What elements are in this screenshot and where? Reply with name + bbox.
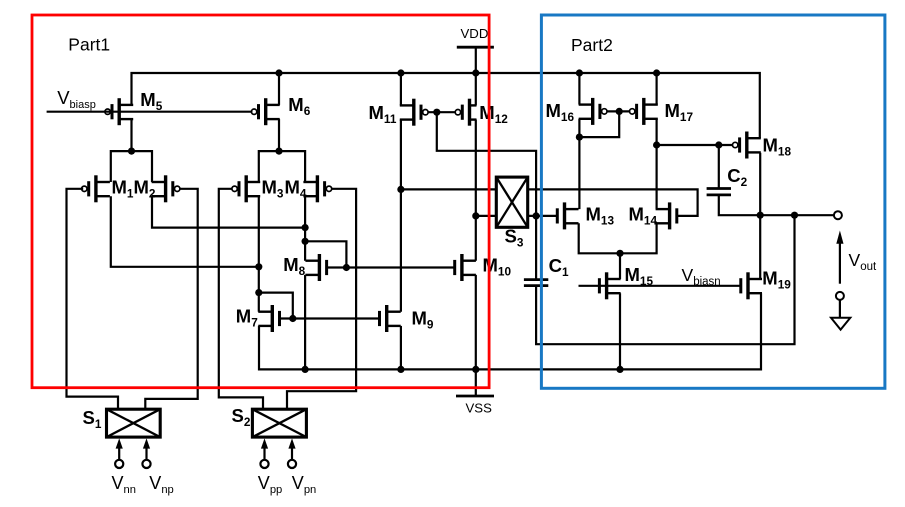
wire C1 top stem (535, 216, 537, 280)
svg-text:Vpp: Vpp (258, 473, 282, 496)
svg-text:S2: S2 (232, 405, 251, 429)
wire M8 source stem (304, 275, 306, 370)
node M16 M17 gates (616, 108, 623, 115)
node M17 drain on rail (653, 69, 660, 76)
wire bottom VSS rail with M7 and M19 sources (259, 293, 761, 369)
node C2 tap on M18 gate line (715, 141, 722, 148)
node M15 source on rail (616, 366, 623, 373)
wire M10 source stem (475, 275, 477, 370)
wire M12 drain stem (475, 73, 477, 105)
transistor M5 (117, 98, 120, 125)
wire Vbiasp gate line to M5 M6 (47, 111, 253, 113)
node M7 gate junction (289, 315, 296, 322)
wire M11 drain stem (400, 73, 402, 105)
wire M18 source column to M19 drain (759, 153, 761, 279)
wire M3 gate to S2 left (219, 189, 263, 409)
ground symbol (839, 300, 841, 318)
node A M1 M7 drains (255, 263, 262, 270)
transistor M2 (164, 175, 167, 202)
svg-text:M1: M1 (112, 177, 134, 201)
switch S1 (107, 409, 161, 437)
svg-text:M7: M7 (236, 306, 258, 330)
node M17 source M18 gate (653, 141, 660, 148)
wire M6 drain stem (278, 73, 280, 105)
svg-text:M17: M17 (665, 100, 694, 124)
transistor M15 (605, 272, 608, 299)
svg-text:M6: M6 (288, 94, 310, 118)
terminal Vout reference (836, 292, 844, 300)
svg-text:M19: M19 (762, 267, 791, 291)
Part1 boundary box (32, 15, 489, 388)
svg-text:Vnn: Vnn (112, 473, 136, 496)
transistor M19 (746, 272, 749, 299)
node M16 source M13 drain (576, 134, 583, 141)
wire output node to terminal (760, 214, 834, 216)
wire M13 M14 source yoke (579, 223, 657, 253)
node M12 drain and VDD on rail (472, 69, 479, 76)
svg-text:M8: M8 (283, 254, 305, 278)
svg-text:VDD: VDD (461, 26, 489, 41)
svg-text:M14: M14 (629, 204, 658, 228)
transistor M6 (264, 98, 267, 125)
wire M17 source column to M14 drain (655, 119, 657, 209)
svg-text:M16: M16 (546, 100, 575, 124)
capacitor C1 (524, 278, 548, 281)
wire M3 M4 source yoke (259, 151, 305, 182)
wire M2 drain to node B (152, 196, 305, 227)
wire C1 bottom to output feedback (536, 215, 794, 344)
wire S3 upper through line to M14 gate (401, 189, 698, 216)
svg-text:VSS: VSS (466, 401, 493, 416)
node M8 diode tap (302, 238, 309, 245)
wire M17 drain stem (655, 73, 657, 105)
node feedback on output line (791, 212, 798, 219)
svg-text:Vpn: Vpn (292, 473, 316, 496)
switch S2 (252, 409, 306, 437)
wire C2 bottom to output node (719, 195, 760, 215)
node M7 diode tap (255, 289, 262, 296)
wire M16 M17 gate link (607, 110, 630, 112)
switch S3 (496, 177, 527, 227)
svg-text:M12: M12 (479, 102, 508, 126)
wire C2 top stem (718, 145, 720, 189)
power VSS symbol (475, 369, 477, 396)
svg-text:M15: M15 (625, 264, 654, 288)
wire M8 M10 gate line (327, 266, 455, 268)
terminal Vnp input arrow (142, 460, 150, 468)
svg-text:S3: S3 (505, 226, 524, 250)
transistor M1 (94, 175, 97, 202)
node M1 M2 common source (128, 148, 135, 155)
wire M9 source stem (400, 326, 402, 370)
wire top VDD rail (132, 73, 760, 138)
svg-text:Part2: Part2 (571, 35, 613, 55)
wire M15 source stem (619, 293, 621, 369)
wire M15 drain stem (619, 253, 621, 279)
transistor M4 (316, 175, 319, 202)
wire M1 M2 source yoke (111, 151, 152, 182)
svg-text:Vbiasn: Vbiasn (682, 265, 721, 288)
transistor M18 (745, 132, 748, 159)
wire M4 gate to S2 right (287, 189, 356, 409)
node B M2 M8 drains (302, 224, 309, 231)
transistor M14 (668, 202, 671, 229)
transistor M16 (591, 98, 594, 125)
node M16 drain on rail (576, 69, 583, 76)
wire M7 diode tie (259, 293, 293, 319)
svg-text:M11: M11 (369, 102, 397, 126)
terminal Vnn input arrow (115, 460, 123, 468)
node output M18 source C2 (757, 212, 764, 219)
wire M16 drain stem (578, 73, 580, 105)
node VSS tap on rail (472, 366, 479, 373)
power VDD symbol (457, 46, 494, 49)
Part2 boundary box (541, 15, 885, 388)
wire M1 drain to node A (111, 196, 259, 267)
svg-text:M10: M10 (483, 255, 512, 279)
capacitor C2 (707, 187, 731, 190)
wire M12 source column to M10 drain (475, 120, 477, 261)
wire M16 source column to M13 drain (578, 119, 580, 209)
wire M11 drain column to M9 drain (400, 120, 402, 312)
transistor M13 (563, 202, 566, 229)
svg-text:Vout: Vout (849, 250, 877, 273)
transistor M10 (460, 254, 463, 281)
node M11 M12 gates (433, 109, 440, 116)
wire M1 gate to S1 left (67, 189, 119, 409)
svg-text:C1: C1 (549, 255, 569, 279)
transistor M12 (468, 99, 471, 126)
terminal Vpn input arrow (288, 460, 296, 468)
wire M16 gate diode tie (579, 111, 619, 137)
svg-text:M3: M3 (262, 177, 284, 201)
node M13 M14 common source (616, 250, 623, 257)
wire S3 lower left segment (476, 215, 497, 217)
svg-text:S1: S1 (83, 407, 102, 431)
transistor M7 (271, 305, 274, 332)
node S3 lower tap on M12 source (472, 212, 479, 219)
wire M11 M12 gates to second stage input (437, 112, 536, 216)
transistor M9 (385, 305, 388, 332)
terminal Vout (834, 211, 842, 219)
svg-text:M18: M18 (763, 135, 792, 159)
svg-text:Part1: Part1 (68, 35, 110, 55)
svg-text:M4: M4 (285, 177, 307, 201)
wire M7 M9 gate line (280, 317, 380, 319)
wire M5 source stem (130, 119, 132, 151)
transistor M8 (318, 254, 321, 281)
node S3 upper tap on M11 drain (397, 186, 404, 193)
terminal Vpp input arrow (260, 460, 268, 468)
svg-text:C2: C2 (727, 165, 747, 189)
node M6 drain on rail (275, 69, 282, 76)
node M8 source on rail (302, 366, 309, 373)
wire Vbiasn gate line M15 M19 (579, 285, 741, 287)
svg-text:Vbiasp: Vbiasp (57, 87, 96, 111)
transistor M17 (642, 98, 645, 125)
node C1 and M13 gate junction (533, 212, 540, 219)
wire M11 M12 gate link (428, 111, 455, 113)
node M11 drain on rail (397, 69, 404, 76)
wire S3 lower right segment to M13 gate (528, 215, 558, 217)
wire M8 diode tie (305, 241, 346, 267)
svg-text:Vnp: Vnp (149, 473, 173, 496)
transistor M3 (244, 175, 247, 202)
wire M4 drain to M8 drain column (304, 196, 306, 260)
node M8 gate junction (343, 264, 350, 271)
svg-text:M13: M13 (586, 203, 615, 227)
svg-text:M5: M5 (140, 89, 162, 113)
svg-text:M9: M9 (412, 308, 434, 332)
wire M3 drain to M7 drain column (258, 196, 260, 311)
node M3 M4 common source (275, 148, 282, 155)
node M9 source on rail (397, 366, 404, 373)
transistor M11 (412, 99, 415, 126)
wire M2 gate to S1 right (145, 189, 197, 409)
wire M6 source stem (278, 119, 280, 151)
arrow Vout (839, 243, 841, 284)
wire M17 source to M18 gate (657, 144, 733, 146)
